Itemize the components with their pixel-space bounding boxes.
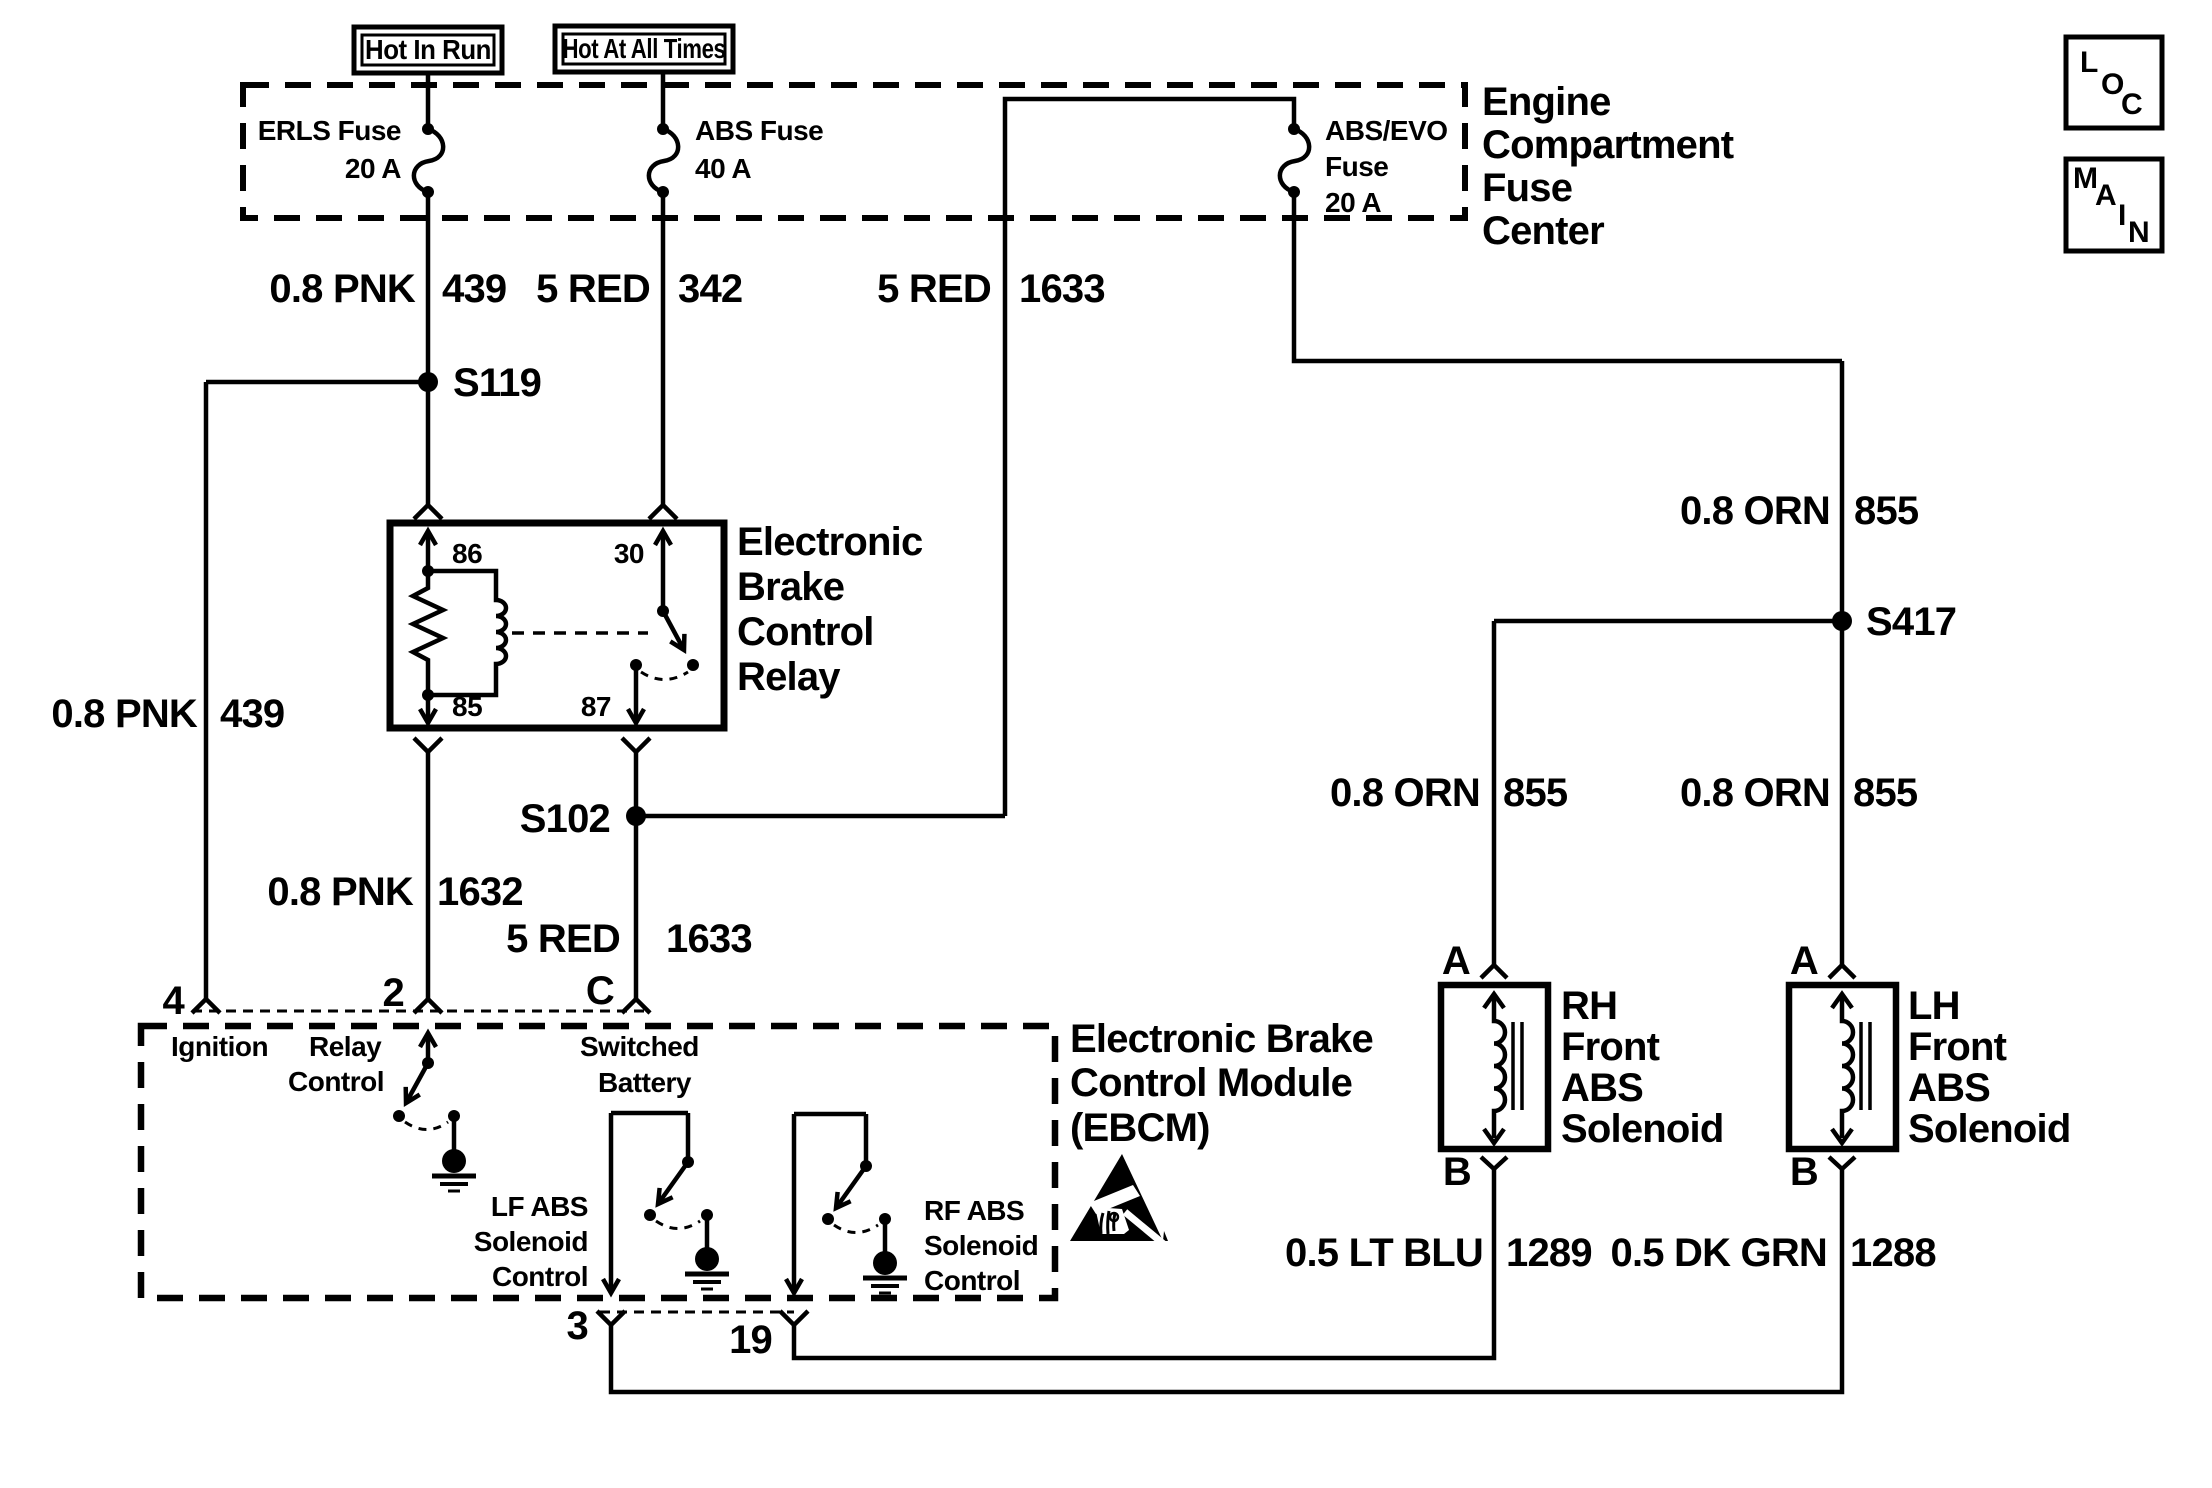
label box Hot In Run [354,27,502,73]
wire S417 branch left [1494,619,1842,624]
wire label 0.8 ORN 855 upper [1680,489,1919,533]
svg-text:342: 342 [678,267,742,311]
connector chevron EBCM pin 4 [192,999,220,1013]
wire Hot At All Times to ABS fuse [661,72,666,129]
svg-text:85: 85 [452,691,482,722]
wire label 0.8 ORN 855 right [1680,771,1918,815]
svg-text:Fuse: Fuse [1325,151,1388,182]
wire Hot In Run to ERLS fuse [426,73,431,129]
relay coil top node [422,565,434,577]
node S417 [1832,600,1956,644]
dashed actuation link [512,631,648,635]
ground (LF switch) [685,1215,729,1289]
svg-text:(EBCM): (EBCM) [1070,1106,1210,1150]
svg-text:Center: Center [1482,209,1604,253]
svg-text:Solenoid: Solenoid [1908,1107,2071,1151]
svg-text:S119: S119 [453,361,541,405]
fuse ERLS 20A [414,123,443,198]
label ABS/EVO Fuse 20 A [1325,115,1448,218]
connector chevron RH solenoid pin B [1481,1157,1507,1169]
svg-text:Control Module: Control Module [1070,1061,1352,1105]
svg-text:87: 87 [581,691,611,722]
svg-text:2: 2 [383,971,404,1015]
RH Front ABS Solenoid box [1441,985,1548,1149]
connector chevron EBCM pin 19 [780,1311,808,1325]
connector chevron relay pin 30 [649,505,677,519]
svg-text:855: 855 [1853,771,1918,815]
svg-text:N: N [2128,216,2150,249]
svg-text:0.5 LT BLU: 0.5 LT BLU [1285,1231,1483,1275]
LH Front ABS Solenoid box [1789,985,1896,1149]
svg-text:B: B [1443,1150,1471,1194]
svg-text:Solenoid: Solenoid [1561,1107,1724,1151]
svg-text:0.8 ORN: 0.8 ORN [1330,771,1480,815]
wire S417 to RH solenoid A [1492,621,1497,965]
connector chevron EBCM pin C [622,999,650,1013]
connector chevron LH solenoid pin A [1829,965,1855,978]
svg-text:3: 3 [567,1304,588,1348]
svg-text:Relay: Relay [309,1031,382,1062]
node S119 [418,361,541,405]
svg-text:Control: Control [737,610,874,654]
wire EBCM pin 19 to RH solenoid B [794,1169,1494,1358]
wire label 0.5 DK GRN 1288 [1611,1231,1937,1275]
Engine Compartment Fuse Center dashed box [243,85,1465,218]
connector chevron relay pin 86 [414,505,442,519]
svg-text:855: 855 [1854,489,1919,533]
label Relay Control [288,1031,384,1097]
LH solenoid coil [1832,994,1870,1143]
svg-text:RH: RH [1561,984,1617,1028]
relay box Electronic Brake Control Relay [390,523,724,728]
wire feed to ABS/EVO fuse [1005,99,1294,816]
relay pin 30 internal arrow [661,531,666,611]
label ABS Fuse 40 A [695,115,823,184]
svg-text:Control: Control [492,1261,588,1292]
svg-text:Front: Front [1908,1025,2007,1069]
wire label 0.8 ORN 855 left [1330,771,1568,815]
connector chevron relay pin 87 [622,738,650,752]
MAIN reference box [2066,159,2162,251]
svg-text:Electronic: Electronic [737,520,923,564]
wire S119 branch left [206,380,428,385]
svg-text:1289: 1289 [1506,1231,1592,1275]
svg-text:0.8 ORN: 0.8 ORN [1680,771,1830,815]
wire label 0.8 PNK 439 top [269,267,506,311]
relay switch arm end dot [687,659,699,671]
svg-text:0.8 PNK: 0.8 PNK [269,267,415,311]
svg-text:LF ABS: LF ABS [491,1191,588,1222]
svg-text:Electronic Brake: Electronic Brake [1070,1017,1373,1061]
svg-text:I: I [2118,199,2126,232]
svg-text:30: 30 [614,538,644,569]
wire label 5 RED 1633 top [877,267,1105,311]
svg-text:0.8 PNK: 0.8 PNK [267,870,413,914]
svg-text:Control: Control [924,1265,1020,1296]
label box Hot At All Times [555,26,733,72]
wire S102 branch right [636,814,1005,819]
svg-text:L: L [2080,46,2098,79]
svg-text:S102: S102 [520,797,610,841]
svg-text:ABS: ABS [1908,1066,1990,1110]
svg-text:1632: 1632 [437,870,523,914]
svg-text:40 A: 40 A [695,153,751,184]
dashed throw arc (relay) [641,672,688,680]
ESD sensitive device symbol [1070,1154,1168,1246]
svg-text:Brake: Brake [737,565,844,609]
svg-text:C: C [586,969,614,1013]
svg-text:Hot At All Times: Hot At All Times [563,33,726,64]
RH solenoid coil [1484,994,1522,1143]
relay pin 86 internal arrow [426,531,431,571]
label LH Front ABS Solenoid [1908,984,2071,1151]
svg-text:RF ABS: RF ABS [924,1195,1024,1226]
label Switched Battery [580,1031,699,1098]
LOC reference box [2066,37,2162,128]
RF ABS solenoid control switch [794,1114,891,1293]
svg-text:5 RED: 5 RED [506,917,620,961]
fuse ABS/EVO 20A [1280,123,1309,198]
ground (RF switch) [863,1219,907,1293]
svg-text:19: 19 [729,1318,772,1362]
svg-text:ABS/EVO: ABS/EVO [1325,115,1448,146]
connector chevron RH solenoid pin A [1481,965,1507,978]
ground (relay control) [432,1116,476,1191]
wire label 5 RED 342 [536,267,742,311]
svg-text:Ignition: Ignition [171,1031,268,1062]
EBCM dashed box [141,1026,1055,1298]
svg-text:20 A: 20 A [345,153,401,184]
relay pin 87 internal arrow [634,665,639,723]
label Engine Compartment Fuse Center [1482,80,1734,253]
svg-text:S417: S417 [1866,600,1956,644]
connector chevron EBCM pin 3 [597,1311,625,1325]
svg-text:LH: LH [1908,984,1960,1028]
svg-text:ERLS Fuse: ERLS Fuse [258,115,401,146]
svg-text:0.8 PNK: 0.8 PNK [51,692,197,736]
svg-text:C: C [2121,88,2143,121]
wire left vertical to EBCM pin 4 [204,382,209,999]
relay coil bottom node [422,689,434,701]
svg-text:Control: Control [288,1066,384,1097]
coil (relay) [428,571,506,695]
svg-text:Solenoid: Solenoid [474,1226,588,1257]
svg-text:A: A [1790,939,1818,983]
relay pin 87 contact dot [630,659,642,671]
svg-text:4: 4 [163,979,186,1023]
connector chevron EBCM pin 2 [414,999,442,1013]
svg-text:20 A: 20 A [1325,187,1381,218]
relay switch pivot [657,605,669,617]
svg-text:5 RED: 5 RED [877,267,991,311]
svg-text:Fuse: Fuse [1482,166,1572,210]
wire label 0.8 PNK 1632 [267,870,522,914]
svg-text:0.8 ORN: 0.8 ORN [1680,489,1830,533]
wire ERLS fuse to relay pin 86 [426,192,431,505]
svg-text:ABS Fuse: ABS Fuse [695,115,823,146]
svg-text:A: A [1442,939,1470,983]
label RH Front ABS Solenoid [1561,984,1724,1151]
label LF ABS Solenoid Control [474,1191,588,1292]
svg-text:1288: 1288 [1850,1231,1936,1275]
svg-text:1633: 1633 [666,917,752,961]
label RF ABS Solenoid Control [924,1195,1038,1296]
connector dashed line bottom [600,1311,794,1314]
fuse ABS 40A [649,123,678,198]
svg-text:1633: 1633 [1019,267,1105,311]
svg-text:Relay: Relay [737,655,841,699]
svg-text:B: B [1790,1150,1818,1194]
svg-text:5 RED: 5 RED [536,267,650,311]
connector dashed line top [192,1010,650,1013]
svg-text:Compartment: Compartment [1482,123,1734,167]
label Electronic Brake Control Relay [737,520,923,699]
svg-text:Battery: Battery [598,1067,692,1098]
svg-text:Front: Front [1561,1025,1660,1069]
svg-text:855: 855 [1503,771,1568,815]
svg-text:Hot In Run: Hot In Run [365,34,491,65]
svg-text:Solenoid: Solenoid [924,1230,1038,1261]
LF ABS solenoid control switch [611,1113,713,1293]
relay switch arm [663,611,684,650]
svg-text:A: A [2095,179,2117,212]
wire EBCM pin 3 to LH solenoid B [611,1169,1842,1392]
wire label 5 RED 1633 lower [506,917,752,961]
svg-text:Engine: Engine [1482,80,1611,124]
label ERLS Fuse 20 A [258,115,402,184]
wire label 0.8 PNK 439 left [51,692,284,736]
wire ABS fuse to relay pin 30 [661,192,666,505]
wire S417 to LH solenoid A [1840,361,1845,965]
resistor (relay) [413,571,443,695]
wire relay 87 to EBCM pin C [634,752,639,999]
label Electronic Brake Control Module (EBCM) [1070,1017,1373,1150]
svg-text:0.5 DK GRN: 0.5 DK GRN [1611,1231,1828,1275]
connector chevron LH solenoid pin B [1829,1157,1855,1169]
wire label 0.5 LT BLU 1289 [1285,1231,1592,1275]
wire ABS/EVO fuse feed right [1294,192,1842,361]
svg-text:Switched: Switched [580,1031,699,1062]
wire relay 85 to EBCM pin 2 [426,752,431,999]
svg-text:86: 86 [452,538,482,569]
connector chevron relay pin 85 [414,738,442,752]
relay control switch (EBCM) [393,1033,460,1130]
svg-text:439: 439 [220,692,284,736]
node S102 [520,797,646,841]
svg-text:439: 439 [442,267,506,311]
relay pin 85 internal arrow [426,695,431,723]
svg-text:ABS: ABS [1561,1066,1643,1110]
